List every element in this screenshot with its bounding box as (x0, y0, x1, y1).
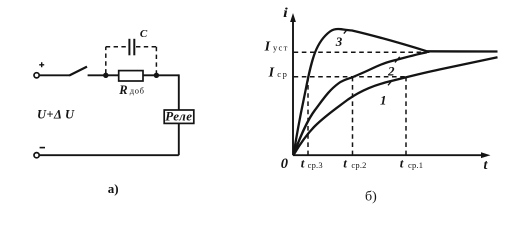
y-axis arrowhead (290, 13, 296, 22)
minus label (40, 147, 45, 149)
capacitor C left plate (128, 39, 130, 56)
dashed vertical t_sr3 (307, 77, 309, 155)
curve label 2 (387, 63, 395, 78)
svg-text:ср.3: ср.3 (308, 160, 323, 170)
svg-text:б): б) (365, 189, 377, 204)
tick label t_sr.3 (301, 156, 323, 171)
resistor Rdob body (119, 71, 143, 81)
wire node B to right corner (156, 74, 178, 76)
leader for 1 (388, 80, 393, 85)
wire from + terminal to switch (39, 74, 69, 76)
curve label 1 (380, 93, 387, 108)
origin label 0 (281, 156, 288, 172)
svg-text:3: 3 (335, 34, 343, 49)
node A (left junction dot) (103, 73, 108, 78)
resistor Rdob label (118, 83, 145, 97)
terminal plus (top-left supply terminal) (34, 73, 39, 78)
curve 1 (slow rise) (294, 57, 498, 155)
svg-text:0: 0 (281, 156, 288, 172)
wire resistor to node B (143, 74, 156, 76)
svg-text:2: 2 (387, 63, 395, 78)
relay label (165, 109, 192, 124)
svg-text:1: 1 (380, 93, 387, 108)
tick label t_sr.2 (343, 156, 366, 171)
capacitor C right plate (133, 39, 135, 56)
svg-text:ср: ср (277, 69, 288, 79)
dashed wire down to node B (155, 47, 157, 74)
switch SA blade (69, 67, 87, 76)
wire right branch down to relay (178, 74, 180, 110)
svg-text:I: I (268, 66, 275, 81)
graph y-axis (292, 20, 294, 155)
svg-text:а): а) (108, 181, 119, 196)
svg-text:t: t (301, 156, 305, 171)
leader for 3 (344, 30, 347, 34)
dashed wire node A up (105, 47, 107, 74)
plus label (39, 62, 44, 67)
node B (right junction dot) (154, 73, 159, 78)
relay box (164, 110, 194, 123)
label Iust (264, 40, 289, 55)
leader for 2 (395, 57, 400, 63)
svg-text:t: t (343, 156, 347, 171)
wire relay to bottom (178, 123, 180, 155)
wire node A to resistor (106, 74, 119, 76)
svg-text:t: t (400, 156, 404, 171)
tick label t_sr.1 (400, 156, 423, 171)
svg-text:доб: доб (130, 86, 145, 96)
svg-text:R: R (118, 83, 127, 97)
curve label 3 (335, 34, 343, 49)
dashed level line Isr (294, 76, 406, 78)
svg-text:t: t (484, 158, 489, 173)
bottom wire (39, 154, 178, 156)
y-axis label i (283, 6, 288, 21)
label Isr (268, 66, 289, 81)
curve 2 (faster rise) (294, 52, 428, 155)
svg-text:Реле: Реле (165, 109, 192, 124)
graph x-axis (293, 154, 483, 156)
svg-text:I: I (264, 40, 271, 55)
x-axis label t (484, 158, 489, 173)
svg-text:уст: уст (273, 43, 289, 53)
supply voltage label U+dU (37, 108, 75, 122)
dashed wire to capacitor left (106, 46, 128, 48)
dashed vertical t_sr1 (405, 77, 407, 155)
svg-text:i: i (283, 6, 288, 21)
svg-text:ср.1: ср.1 (408, 160, 423, 170)
svg-text:ср.2: ср.2 (351, 160, 366, 170)
capacitor C label (140, 28, 148, 40)
merged asymptote line of curves 2 and 3 (427, 50, 498, 53)
subfigure label a) (108, 181, 119, 196)
dashed vertical t_sr2 (352, 77, 354, 155)
x-axis arrowhead (481, 152, 491, 158)
subfigure label b) (365, 189, 377, 204)
svg-text:U+Δ U: U+Δ U (37, 108, 75, 122)
curve 3 (boosted coil current with overshoot) (294, 29, 428, 155)
wire from switch to node A (88, 74, 106, 76)
dashed level line Iust (294, 51, 432, 53)
dashed wire from capacitor right (136, 46, 156, 48)
terminal minus (bottom-left supply terminal) (34, 153, 39, 158)
svg-text:C: C (140, 28, 148, 40)
